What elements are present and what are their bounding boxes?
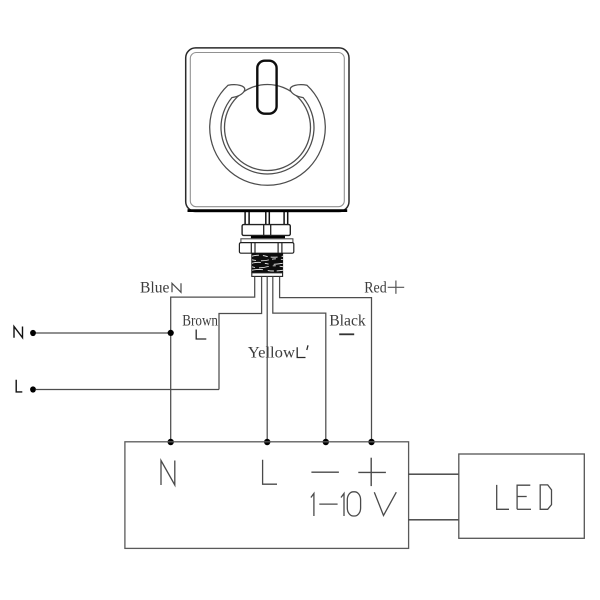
driver terminal minus symbol [311,471,339,473]
terminal dot L [30,386,36,392]
junction dot driver L [264,439,270,445]
link wire driver to LED upper [409,473,459,475]
power symbol arc ring (horseshoe) [210,85,326,186]
junction dot driver minus [323,439,329,445]
knob shaft stems [245,212,288,225]
junction dot driver plus [368,439,374,445]
wire blue (N) [171,277,255,442]
power symbol knob circle [225,85,311,171]
collar shadow bar [251,236,285,238]
dimmer head bottom edge (thick) [188,209,348,212]
label Blue N [140,280,181,297]
driver terminal letter N [161,461,175,486]
dimmer head inner border line [190,53,344,207]
L supply line [36,389,219,391]
thread bottom collar band [252,273,283,277]
label Black minus [329,313,366,335]
LED letter E [517,485,531,509]
label Yellow L' [248,345,308,362]
washer [241,239,293,243]
terminal dot N [30,330,36,336]
link wire driver to LED lower [409,519,459,521]
label Red + [364,280,404,297]
driver terminal letter L [263,460,277,485]
driver label 1-10V [311,492,396,516]
wire black (-) [273,277,326,442]
svg-text:Brown: Brown [182,312,218,329]
LED box [459,454,585,538]
junction dot blue/N [168,330,174,336]
svg-text:Blue: Blue [140,280,169,297]
terminal label N [14,327,23,338]
LED letter L [497,485,509,509]
junction dot driver N [168,439,174,445]
svg-text:Red: Red [364,280,387,297]
N supply line [36,332,171,334]
threaded stem [251,253,283,273]
terminal label L [16,380,22,392]
driver box [125,442,409,549]
power symbol bar (pill) [257,61,276,114]
label Brown L [182,312,218,339]
driver terminal plus symbol [358,458,386,486]
svg-text:Black: Black [329,313,366,330]
svg-text:Yellow: Yellow [248,345,296,362]
wire yellow (L') [266,277,268,442]
wire brown (L) [219,277,262,390]
LED letter D [540,485,551,509]
gland collar nut [242,225,290,236]
hex nut [239,243,293,254]
wire red (+) [280,277,372,442]
dimmer head outer body [186,48,349,212]
